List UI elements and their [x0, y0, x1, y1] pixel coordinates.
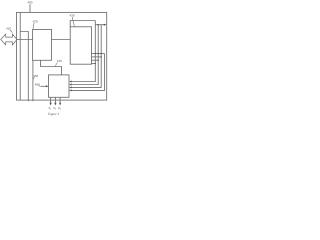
wire output P3 [59, 97, 61, 103]
wire bus3 [70, 25, 101, 88]
svg-text:440: 440 [57, 59, 62, 63]
wire branch-out [95, 24, 105, 26]
junction dot branch [98, 24, 99, 25]
arrowhead branch-out [104, 24, 107, 26]
wire bus vertical [19, 12, 21, 100]
leader 440 [56, 63, 58, 67]
block 420 [33, 30, 52, 61]
svg-text:P1: P1 [49, 107, 52, 111]
svg-text:Figure 4: Figure 4 [47, 112, 59, 116]
wire output P2 [54, 97, 56, 103]
arrowhead input right4 [69, 89, 71, 91]
arrowhead input right2 [69, 84, 71, 86]
wire bus1 [70, 21, 95, 82]
block 430 [70, 27, 91, 64]
leader 430 [72, 17, 74, 27]
I/O double arrow 410 [1, 34, 17, 45]
arrowhead input 460 [46, 85, 48, 87]
wire output P1 [50, 97, 52, 103]
arrowhead output P3 [59, 103, 61, 106]
block 450 [49, 75, 70, 97]
outer device box 400 [17, 12, 107, 100]
leader 460 [39, 85, 41, 88]
wire 430 top loop [70, 21, 95, 27]
junction dot stub1c [101, 53, 102, 54]
wire stub3 [92, 59, 99, 61]
wire 420-to-430 [52, 39, 71, 41]
wire stub4 [92, 63, 96, 65]
junction dot stub1 [95, 53, 96, 54]
svg-text:450: 450 [33, 74, 38, 78]
svg-text:P2: P2 [53, 107, 56, 111]
wire stub1 [92, 53, 105, 55]
wire arrow-to-420 [17, 39, 33, 41]
wire 420 down [32, 60, 34, 101]
wire bus2 [70, 25, 98, 85]
wire branch left [20, 32, 28, 102]
svg-text:P3: P3 [58, 107, 61, 111]
svg-text:400: 400 [27, 1, 32, 5]
arrowhead output P2 [54, 103, 56, 106]
wire input 460 [41, 85, 47, 87]
svg-text:410: 410 [6, 27, 11, 31]
wire 420-to-450 staircase [41, 60, 62, 75]
svg-text:430: 430 [69, 14, 74, 18]
junction dot stub3 [98, 60, 99, 61]
arrowhead input right1 [69, 81, 71, 83]
arrowhead input right3 [69, 86, 71, 88]
leader 410 [10, 30, 13, 32]
junction dot stub1b [98, 53, 99, 54]
leader 450 [33, 77, 35, 79]
junction dot stub4 [95, 63, 96, 64]
svg-text:460: 460 [35, 82, 40, 86]
arrowhead output P1 [50, 103, 52, 106]
wire leader 400 [29, 4, 31, 12]
wire stub2 [92, 56, 102, 58]
svg-text:420: 420 [32, 20, 37, 24]
wire bus4 [70, 54, 104, 91]
leader 420 [33, 23, 34, 30]
junction dot stub2 [101, 56, 102, 57]
